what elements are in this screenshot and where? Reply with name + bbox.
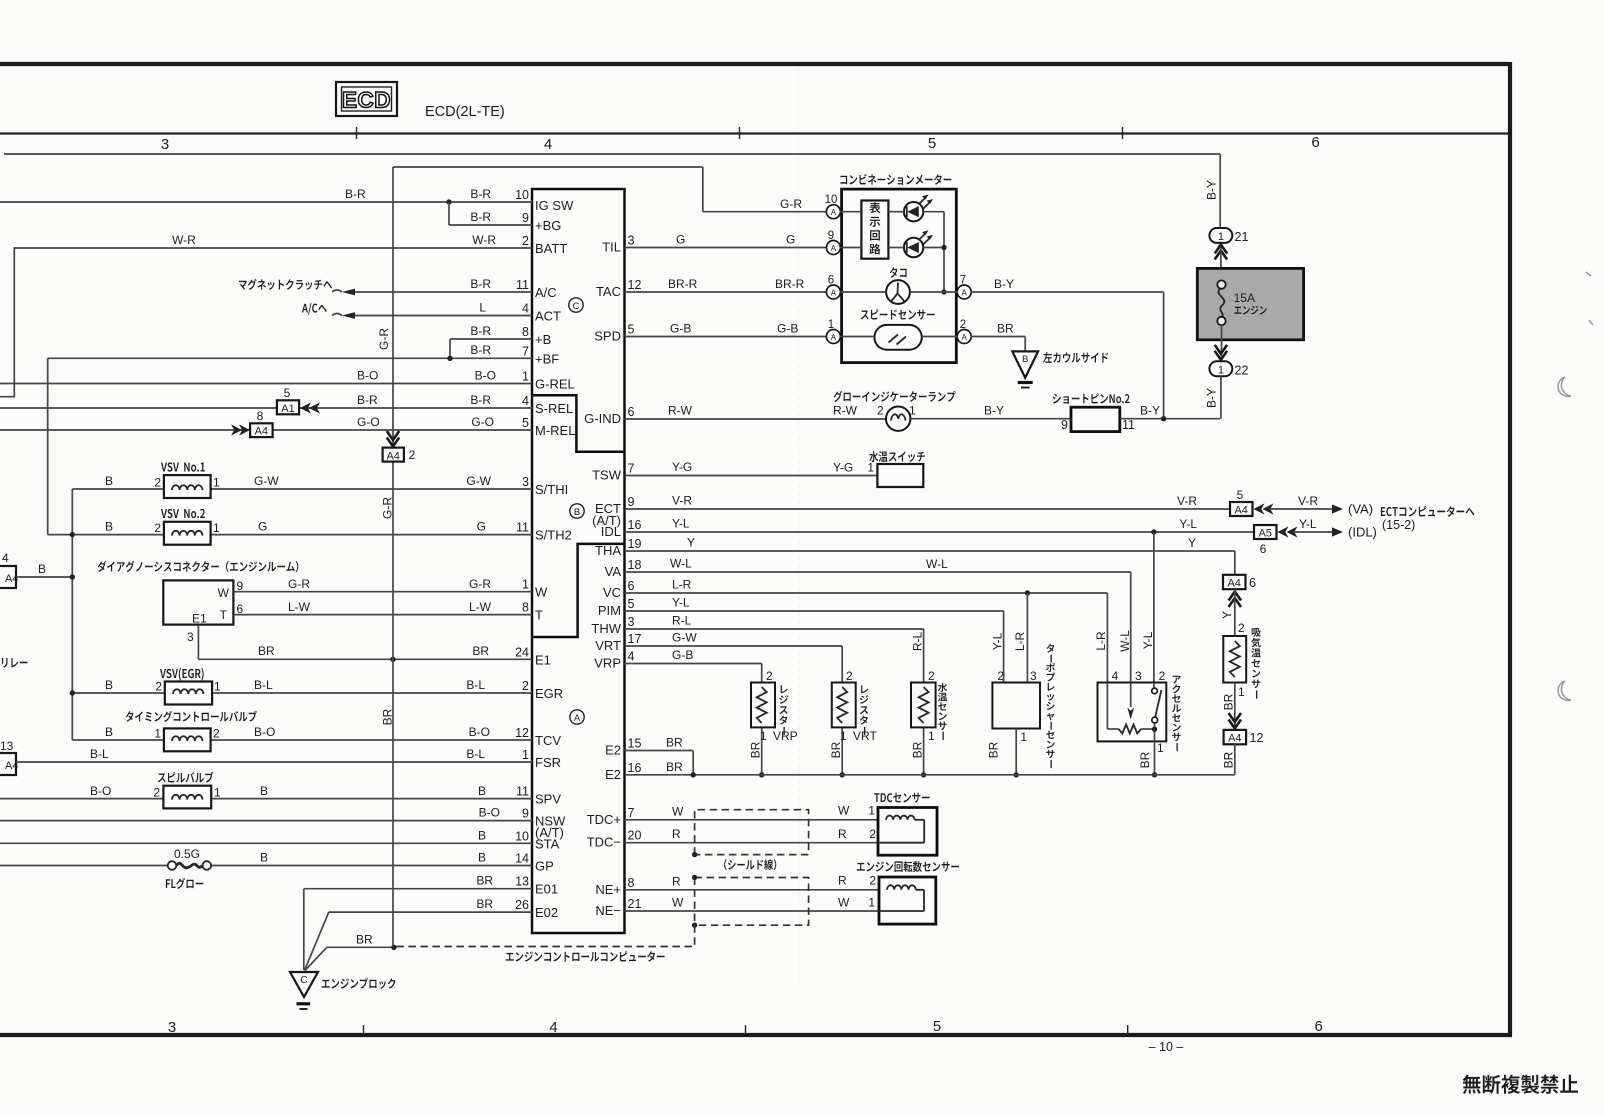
ground C engine block [290,972,318,997]
wire B-R to +BF pin 7 [48,357,532,359]
svg-text:13: 13 [0,739,14,753]
svg-text:1: 1 [1238,685,1245,699]
svg-text:11: 11 [516,278,529,292]
connector A4-12 [1224,730,1247,744]
svg-text:1: 1 [928,729,935,743]
glow indicator lamp [886,407,910,431]
label VSV(EGR) [160,668,204,681]
wire B-R to +B pin 8 [450,338,532,340]
svg-text:12: 12 [515,726,529,740]
svg-text:G-O: G-O [357,415,380,429]
svg-text:BR-R: BR-R [668,277,698,291]
svg-text:E2: E2 [605,743,621,758]
trunk wire G-R/BR vertical [392,167,394,448]
svg-text:VC: VC [603,585,621,600]
svg-text:A: A [831,244,837,253]
svg-text:2: 2 [869,827,876,841]
svg-text:EGR: EGR [535,686,563,701]
top ruler tick 1 [356,127,358,139]
node B-Y junction [1161,416,1166,421]
svg-text:0.5G: 0.5G [174,847,200,861]
top border line [0,62,1508,66]
svg-text:A/C: A/C [535,285,557,300]
wire B-R to A/C pin 11 (magnet clutch) [354,291,532,293]
wire B-Y feed line [4,153,1220,155]
svg-text:BR: BR [666,736,683,750]
ground B left cowl side [1012,351,1038,377]
svg-text:BR: BR [911,741,925,758]
short pin No.2 box [1071,407,1120,431]
wire W-L VA pin 18 [625,571,1131,573]
wire R-L THW pin 3 [625,628,924,630]
label engine control computer [506,951,665,962]
connector A4 (VA) [1230,502,1253,516]
svg-text:(15-2): (15-2) [1382,518,1415,532]
svg-text:B-L: B-L [466,747,485,761]
right border line [1508,62,1512,1035]
svg-text:8: 8 [522,325,529,339]
svg-text:13: 13 [515,875,529,889]
svg-text:W-L: W-L [670,557,692,571]
svg-text:B-R: B-R [470,393,491,407]
label accel sensor [1172,676,1181,751]
node junction B-R [446,199,451,204]
wire into fuse [1220,247,1222,281]
connector A4 left edge (FSR) [0,753,16,775]
svg-text:R: R [838,873,847,887]
svg-text:IG SW: IG SW [535,198,574,213]
svg-text:9: 9 [1061,418,1068,432]
svg-text:5: 5 [933,1018,941,1035]
svg-text:V-R: V-R [1177,494,1197,508]
svg-text:E1: E1 [535,652,551,667]
wire pin1 to speed sensor [840,336,875,338]
svg-text:7: 7 [628,462,635,476]
svg-text:10: 10 [515,188,529,202]
label short pin No.2 [1053,393,1130,404]
connector A4-2 on trunk [383,448,404,462]
svg-text:2: 2 [522,234,529,248]
svg-text:ECD: ECD [342,88,391,113]
node shield 3 [692,923,697,928]
connector A4 on M-REL wire [250,423,273,437]
svg-text:G-B: G-B [672,648,693,662]
svg-text:8: 8 [522,601,529,615]
svg-text:R: R [838,827,847,841]
svg-text:TAC: TAC [596,284,621,299]
arrows into A5 IDL [1278,526,1289,537]
svg-text:5: 5 [928,135,936,152]
connector A1 on S-REL wire [277,400,299,414]
wire B to GP pin 14 via fusible link [0,865,168,867]
combination meter box [842,189,957,363]
svg-text:T: T [220,608,228,622]
wire E01 down to ground [303,889,305,970]
svg-text:SPV: SPV [535,792,561,807]
wire G-W VRT pin 17 [625,645,843,647]
arrows into A4-2 [387,438,399,447]
ECU block C/B step [532,395,625,452]
svg-text:W: W [672,804,684,818]
wire G VSV No.2 to S/TH2 pin 11 [48,534,164,536]
wire meter pin9 to display [840,247,862,249]
svg-text:1: 1 [213,521,220,535]
svg-text:B: B [38,562,46,576]
svg-text:BR: BR [476,874,493,888]
svg-text:5: 5 [522,416,529,430]
bottom ruler tick 3 [1127,1025,1129,1035]
VSV(EGR) solenoid [165,682,212,705]
svg-text:B: B [105,678,113,692]
svg-text:1: 1 [760,729,767,743]
svg-text:BR: BR [997,322,1014,336]
svg-text:2: 2 [154,476,161,490]
ECU section letter C [569,298,583,312]
svg-text:W: W [838,896,850,910]
svg-text:B-R: B-R [470,187,491,201]
copyright stamp [1463,1075,1578,1094]
svg-text:B-O: B-O [479,806,500,820]
svg-text:B-Y: B-Y [1140,404,1160,418]
svg-text:9: 9 [522,211,529,225]
svg-text:BATT: BATT [535,241,567,256]
svg-text:10: 10 [825,194,838,206]
TDC sensor [878,808,937,856]
wire L-W T to ECU T pin 8 [233,614,532,616]
svg-text:2: 2 [928,669,935,683]
svg-text:B-R: B-R [357,393,378,407]
svg-text:2: 2 [1238,621,1245,635]
wire L to ACT pin 4 (A/C) [354,315,532,317]
svg-text:1: 1 [868,803,875,817]
arrow to A/C [342,312,355,319]
wire display to LED2 [888,247,904,249]
svg-text:A4: A4 [5,573,18,585]
label intake air temp sensor [1251,628,1261,699]
node BR at trunk [390,657,395,662]
svg-text:BR: BR [986,741,1000,758]
wire BR to E01 pin 13 [304,888,532,890]
svg-text:A: A [962,333,968,342]
svg-text:4: 4 [628,650,635,664]
label left cowl side [1043,352,1108,363]
svg-text:21: 21 [628,897,642,911]
svg-text:THA: THA [595,543,621,558]
speed sensor [874,325,921,350]
wire BR intake sensor down [1234,683,1236,730]
svg-text:B-R: B-R [345,187,366,201]
svg-text:Y: Y [1220,611,1234,619]
svg-text:1: 1 [840,729,847,743]
svg-text:C: C [300,975,307,986]
svg-text:Y-L: Y-L [1141,631,1155,649]
svg-text:B: B [478,828,486,842]
accel idle switch [1152,688,1158,694]
svg-text:2: 2 [960,319,966,331]
svg-text:BR: BR [1222,693,1236,710]
resistor VRP [751,683,775,728]
svg-text:G-REL: G-REL [535,377,575,392]
svg-text:FSR: FSR [535,755,561,770]
svg-text:Y-L: Y-L [990,632,1004,650]
label glow indicator lamp [833,391,955,402]
svg-text:Y: Y [687,536,695,550]
wire Y to intake sensor [1234,589,1236,636]
node L-R turbo branch [1025,590,1030,595]
svg-text:VRP: VRP [594,656,621,671]
wire speed sensor to pin2 [922,336,958,338]
svg-text:PIM: PIM [598,603,621,618]
svg-text:B: B [1022,354,1028,365]
wire R NE+ pin 8 [625,889,880,891]
node trunk-B at S/TH2 row [70,532,75,537]
svg-text:W: W [535,585,548,600]
label VSV No.1 [161,462,205,471]
label engine speed sensor [857,861,959,872]
svg-text:A4: A4 [255,426,268,438]
svg-text:1: 1 [213,476,220,490]
wire THW drop R-L [923,629,925,683]
svg-text:20: 20 [628,829,642,843]
wire G-B SPD pin 5 to meter [625,336,827,338]
svg-text:M-REL: M-REL [535,423,575,438]
svg-text:R: R [672,827,681,841]
wire BR meter pin2 to ground B [971,336,1026,338]
svg-text:2: 2 [213,727,220,741]
diagnosis connector box [163,580,233,624]
svg-text:21: 21 [1235,230,1249,244]
svg-text:BR: BR [476,897,493,911]
svg-text:2: 2 [154,521,161,535]
label tacho [890,267,907,278]
svg-text:G-IND: G-IND [584,411,621,426]
svg-text:A1: A1 [281,403,294,415]
svg-text:L: L [479,301,486,315]
svg-text:BR: BR [258,644,275,658]
svg-text:R: R [672,874,681,888]
wire BR E1 to ECU E1 pin 24 [197,625,199,660]
svg-text:1: 1 [522,748,529,762]
svg-text:L-W: L-W [288,600,311,614]
shield drain dashed [394,925,695,946]
svg-text:(VA): (VA) [1348,502,1373,517]
wire Y THA pin 19 [625,550,1235,552]
VSV No.1 solenoid [164,475,211,498]
svg-text:1: 1 [214,786,221,800]
fuse 15A engine [1197,268,1303,339]
svg-text:W: W [218,586,230,600]
wire VC drop L-R to turbo [1026,593,1028,683]
svg-text:VRP: VRP [773,729,798,743]
connector A4-6 [1223,575,1246,589]
svg-text:2: 2 [877,404,884,418]
svg-text:W: W [838,803,850,817]
wire BR E2 bus pin 16 [625,774,1235,776]
water temp switch box [877,464,923,487]
svg-text:17: 17 [628,632,642,646]
svg-text:24: 24 [515,645,529,659]
node trunk-B at EGR row [70,690,75,695]
wire LED2 to bus [923,247,944,249]
wire G-O to M-REL pin 5 [0,429,532,431]
wire LED1 to bus [923,211,944,213]
tachometer gauge [886,280,910,304]
svg-text:Y: Y [1188,536,1196,550]
page fold crease [798,68,800,1033]
svg-text:R-L: R-L [672,614,692,628]
svg-text:G-R: G-R [469,577,491,591]
svg-text:BR: BR [472,644,489,658]
wire B-L to FSR pin 1 [16,761,532,763]
svg-text:7: 7 [522,344,529,358]
svg-text:BR: BR [1222,751,1236,768]
wire pin6 to tacho [840,291,886,293]
svg-text:A: A [574,713,581,724]
wire G-R top route to meter [393,166,703,168]
shield box NE [695,878,809,926]
svg-text:Y-L: Y-L [1179,517,1197,531]
svg-text:5: 5 [628,597,635,611]
svg-text:G-W: G-W [466,474,491,488]
svg-text:B-R: B-R [470,343,491,357]
svg-text:L-R: L-R [1013,632,1027,652]
ECU connector outline [532,189,625,933]
svg-text:B: B [105,474,113,488]
turbo pressure sensor box [992,683,1040,729]
fuse label engine [1234,305,1266,314]
node trunk-B at B feed [70,574,75,579]
svg-text:2: 2 [766,669,773,683]
wire BR E2 pin 15 [625,750,694,752]
svg-text:2: 2 [846,669,853,683]
svg-text:2: 2 [409,448,416,462]
svg-text:Y-L: Y-L [1299,517,1317,531]
wire Y THA drop [1234,551,1236,575]
svg-text:4: 4 [522,394,529,408]
svg-text:R-W: R-W [668,404,693,418]
node Y-L accel branch [1151,529,1156,534]
svg-text:IDL: IDL [601,524,621,539]
svg-text:R-L: R-L [911,632,925,652]
ECU block B/A step [532,544,625,637]
wire B-R to S-REL pin 4 [0,407,532,409]
svg-text:BR: BR [666,760,683,774]
svg-text:1: 1 [214,680,221,694]
svg-text:4: 4 [549,1019,557,1036]
wire R TDC- pin 20 [625,842,879,844]
timing control valve solenoid [164,728,211,751]
label A/C [302,303,327,315]
wire B spill valve to SPV pin 11 [0,798,163,800]
wire BR to E02 pin 26 [329,911,532,913]
svg-text:6: 6 [1315,1018,1323,1035]
svg-text:Y-G: Y-G [833,461,853,475]
svg-text:B-L: B-L [466,678,485,692]
svg-text:B-Y: B-Y [984,404,1004,418]
water temp sensor [911,683,936,728]
svg-text:1: 1 [868,896,875,910]
label ECT computer [1381,506,1475,517]
display circuit box [861,201,888,259]
svg-text:1: 1 [522,578,529,592]
svg-text:3: 3 [187,630,194,644]
wire VA drop W-L to accel [1130,572,1132,703]
svg-text:V-R: V-R [672,494,692,508]
meter pin 1A [826,330,840,344]
svg-text:+BF: +BF [535,351,559,366]
wire B-Y lamp to short pin [910,418,1071,420]
svg-text:14: 14 [515,852,529,866]
svg-text:B-L: B-L [254,678,273,692]
svg-text:6: 6 [1311,134,1319,151]
svg-text:16: 16 [628,518,642,532]
svg-text:2: 2 [153,786,160,800]
top ruler line [0,132,1508,134]
svg-text:9: 9 [522,807,529,821]
wire BR shield drain to ground [327,946,394,948]
svg-text:E02: E02 [535,905,558,920]
top ruler tick 2 [739,127,741,139]
svg-text:11: 11 [516,521,529,535]
svg-text:15A: 15A [1234,291,1255,305]
display circuit label [869,202,880,254]
svg-text:TDC−: TDC− [587,835,621,850]
svg-text:G-O: G-O [471,415,494,429]
svg-text:THW: THW [591,621,621,636]
svg-text:G-R: G-R [780,197,802,211]
wire G-W VSV No.1 to S/THI pin 3 [72,488,164,490]
svg-text:2: 2 [997,669,1004,683]
svg-text:9: 9 [628,495,635,509]
svg-text:A5: A5 [1258,528,1271,540]
svg-text:C: C [573,301,580,312]
svg-text:16: 16 [628,761,642,775]
svg-text:9: 9 [828,230,834,242]
svg-text:A: A [831,208,837,217]
wire Y-L drop to accel switch [1153,532,1155,687]
wire B-L VSV(EGR) to EGR pin 2 [72,692,165,694]
svg-text:5: 5 [1237,488,1244,502]
wire LED vertical bus [943,212,945,292]
svg-text:3: 3 [628,234,635,248]
label combination meter [840,174,951,185]
svg-text:TIL: TIL [602,240,621,255]
svg-text:A: A [962,289,968,298]
node +B/+BF junction [447,356,452,361]
svg-text:B: B [574,507,580,518]
svg-text:15: 15 [628,737,642,751]
svg-text:E1: E1 [192,612,207,626]
svg-text:18: 18 [628,558,642,572]
svg-text:B: B [105,725,113,739]
fusible link 0.5G FL-glow [168,861,177,870]
wire G-B VRP pin 4 [625,663,762,665]
svg-text:E01: E01 [535,882,558,897]
accel potentiometer [1106,683,1108,730]
svg-text:1: 1 [1157,741,1164,755]
meter pin 10A [826,205,840,219]
svg-text:B-Y: B-Y [1205,388,1219,408]
svg-text:4: 4 [544,136,552,153]
svg-text:BR: BR [356,933,373,947]
arrow up into 1-21 [1215,245,1227,254]
node shield 1 [692,852,697,857]
svg-text:W-L: W-L [1118,630,1132,652]
connector A4 at left edge (B feed) [0,566,16,588]
node shield 2 [692,875,697,880]
svg-text:BR: BR [381,708,395,725]
svg-text:BR-R: BR-R [775,277,805,291]
